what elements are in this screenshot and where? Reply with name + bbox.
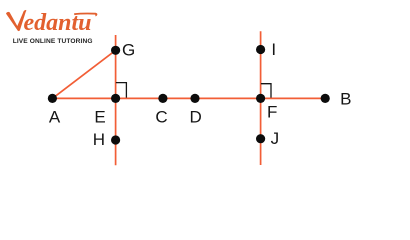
svg-text:I: I	[271, 40, 276, 59]
logo wordmark Vedantu	[6, 10, 96, 36]
wire: diagonal line A-G	[52, 50, 115, 98]
svg-text:B: B	[340, 90, 351, 109]
svg-text:E: E	[94, 107, 105, 126]
svg-text:LIVE ONLINE TUTORING: LIVE ONLINE TUTORING	[13, 38, 93, 45]
svg-text:H: H	[93, 130, 105, 149]
node I	[256, 45, 265, 54]
node B	[321, 94, 330, 103]
svg-text:D: D	[190, 107, 202, 126]
svg-text:G: G	[122, 41, 135, 60]
node J	[256, 134, 265, 143]
right angle mark at F	[261, 84, 271, 98]
wire: vertical line I-J through F	[260, 31, 262, 165]
svg-text:F: F	[267, 103, 277, 122]
wire: horizontal line A-B	[52, 97, 325, 99]
node C	[158, 94, 167, 103]
right angle mark at E	[116, 83, 127, 98]
wire: vertical line G-H through E	[115, 35, 117, 165]
svg-text:C: C	[155, 107, 167, 126]
node G	[111, 46, 120, 55]
node A	[48, 94, 57, 103]
svg-text:A: A	[49, 107, 61, 126]
node F	[256, 94, 265, 103]
node E	[111, 94, 120, 103]
node D	[190, 94, 199, 103]
svg-text:J: J	[271, 129, 280, 148]
node H	[111, 135, 120, 144]
